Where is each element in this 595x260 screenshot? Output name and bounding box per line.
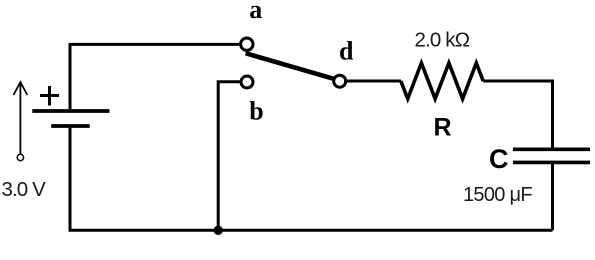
svg-text:2.0 kΩ: 2.0 kΩ	[415, 29, 470, 52]
svg-text:R: R	[434, 114, 452, 142]
battery V1 long plate (+)	[32, 109, 109, 113]
resistor R1 zigzag	[401, 63, 483, 99]
svg-text:3.0 V: 3.0 V	[2, 178, 47, 201]
switch pole d	[334, 75, 346, 87]
wire: contact b branch down to junction	[218, 82, 247, 231]
wire: pole d to resistor	[340, 80, 401, 83]
svg-text:C: C	[489, 144, 509, 174]
wire: battery negative lead down to bottom rail	[69, 126, 72, 230]
svg-text:b: b	[249, 97, 263, 126]
svg-text:d: d	[339, 37, 354, 66]
switch blade a-d	[246, 53, 339, 80]
svg-text:a: a	[249, 0, 262, 24]
voltage arrow	[14, 82, 28, 154]
switch contact b	[241, 76, 253, 88]
battery plus sign	[40, 86, 59, 106]
switch contact a	[241, 38, 253, 50]
capacitor C1 top plate	[513, 148, 590, 152]
junction node	[214, 226, 223, 235]
battery V1 short plate (-)	[51, 124, 89, 128]
wire: bottom rail	[69, 229, 553, 232]
svg-text:1500 μF: 1500 μF	[463, 184, 532, 206]
capacitor C1 bottom plate	[513, 161, 590, 165]
wire: capacitor bottom plate to bottom rail	[551, 164, 554, 230]
wire: resistor to right corner	[483, 81, 552, 148]
wire: top horizontal from battery to switch contact a	[70, 44, 247, 111]
voltage arrow tail circle	[17, 154, 23, 160]
